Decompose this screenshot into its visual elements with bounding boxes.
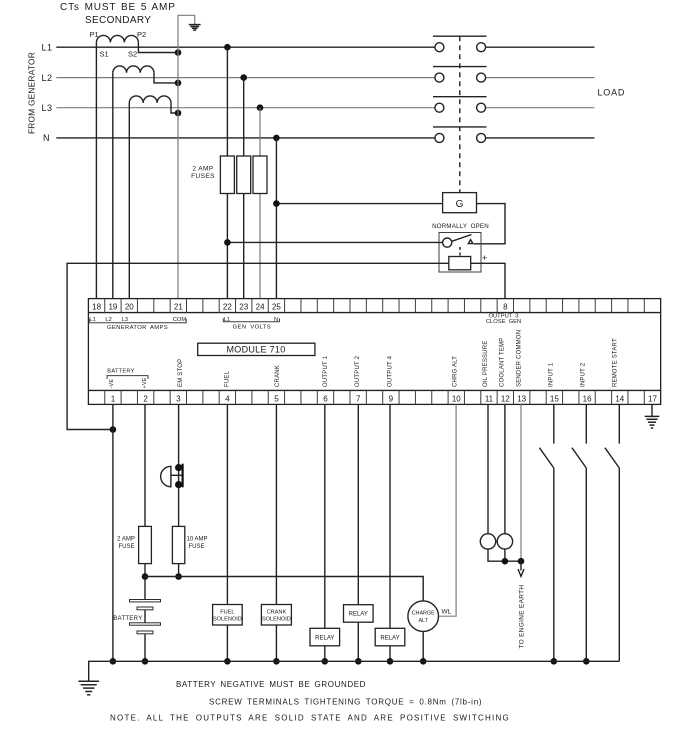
- wire L1 right segment: [486, 46, 595, 48]
- svg-text:CRANK: CRANK: [267, 610, 287, 616]
- svg-text:25: 25: [272, 303, 281, 312]
- svg-text:OUTPUT 1: OUTPUT 1: [323, 355, 329, 387]
- wire terminal 11 to oil pressure sender: [487, 404, 489, 533]
- switch input 1 upper stub: [553, 404, 555, 443]
- battery plates: [130, 600, 161, 602]
- relay switch arm: [452, 235, 472, 242]
- emergency stop contact top: [175, 464, 182, 471]
- svg-text:18: 18: [92, 303, 101, 312]
- fuse 2 AMP: [139, 526, 152, 563]
- svg-text:L1: L1: [89, 317, 95, 323]
- svg-text:16: 16: [583, 394, 592, 403]
- junction N vertical / G coil wire: [273, 200, 280, 207]
- emergency stop contact bottom: [175, 481, 182, 488]
- contactor actuator dashed link: [459, 36, 461, 192]
- emergency stop pushbutton head: [161, 466, 171, 487]
- svg-text:BATTERY NEGATIVE MUST BE GROUN: BATTERY NEGATIVE MUST BE GROUNDED: [176, 680, 366, 689]
- svg-text:L2: L2: [41, 73, 52, 83]
- svg-text:RELAY: RELAY: [349, 612, 368, 618]
- svg-text:COM: COM: [173, 317, 187, 323]
- svg-text:19: 19: [108, 303, 117, 312]
- svg-text:N: N: [43, 133, 50, 143]
- wire L3 right segment: [486, 107, 595, 109]
- relay moving contact triangle: [468, 240, 473, 244]
- wire terminal 2 down through fuse to battery: [144, 404, 146, 599]
- svg-text:G: G: [456, 199, 464, 210]
- svg-text:NOTE. ALL THE OUTPUTS ARE SOLI: NOTE. ALL THE OUTPUTS ARE SOLID STATE AN…: [110, 714, 510, 723]
- contactor pole L3 left contact: [435, 103, 444, 112]
- wire battery negative to bus: [144, 634, 146, 662]
- wire CT1 S2 lead: [138, 42, 178, 52]
- wire terminal 4 to fuel solenoid: [226, 404, 228, 604]
- wire N tap down to terminal 25: [275, 138, 277, 299]
- junction L1 vertical / relay contact wire: [224, 239, 231, 246]
- wire L2 tap down to terminal 23 (through fuse): [243, 78, 245, 299]
- svg-text:S1: S1: [100, 50, 109, 59]
- svg-text:2: 2: [143, 394, 148, 403]
- emergency stop contact bridge: [182, 464, 184, 488]
- wire L1 fuse tap to relay contact: [227, 241, 442, 243]
- svg-text:14: 14: [615, 394, 624, 403]
- svg-text:ALT: ALT: [418, 618, 428, 624]
- svg-text:L1: L1: [41, 42, 52, 52]
- svg-text:COOLANT TEMP: COOLANT TEMP: [499, 337, 505, 387]
- svg-text:1: 1: [111, 394, 116, 403]
- switch input 1 blade: [539, 448, 553, 468]
- svg-text:FROM GENERATOR: FROM GENERATOR: [27, 52, 37, 134]
- svg-text:15: 15: [550, 394, 559, 403]
- svg-text:SOLENOID: SOLENOID: [262, 617, 291, 623]
- wire N tap to G coil: [276, 203, 442, 205]
- junction battery feed / terminal 1 wire: [110, 426, 117, 433]
- svg-text:BATTERY: BATTERY: [113, 616, 142, 622]
- wire CT1 S1 lead down to terminal: [95, 42, 97, 298]
- junction tap on line N: [273, 135, 280, 142]
- svg-text:RELAY: RELAY: [315, 635, 334, 641]
- svg-text:FUSE: FUSE: [118, 544, 134, 550]
- svg-text:GENERATOR AMPS: GENERATOR AMPS: [107, 325, 168, 331]
- svg-text:SECONDARY: SECONDARY: [85, 15, 151, 26]
- svg-text:OIL PRESSURE: OIL PRESSURE: [483, 340, 489, 387]
- svg-text:11: 11: [485, 394, 494, 403]
- svg-text:EM STOP: EM STOP: [178, 359, 184, 387]
- svg-text:INPUT 1: INPUT 1: [548, 362, 554, 387]
- relay actuator dashed link: [459, 247, 461, 257]
- fuse 10 AMP: [172, 526, 184, 563]
- svg-text:CLOSE GEN: CLOSE GEN: [486, 319, 521, 325]
- svg-text:17: 17: [648, 394, 657, 403]
- svg-text:24: 24: [256, 303, 265, 312]
- svg-text:23: 23: [239, 303, 248, 312]
- wire L1 left segment: [56, 46, 435, 48]
- svg-text:FUEL: FUEL: [220, 610, 234, 616]
- junction tap on line L3: [257, 104, 264, 111]
- svg-text:10 AMP: 10 AMP: [186, 537, 207, 543]
- switch input 2 upper stub: [585, 404, 587, 443]
- ground bus: [89, 661, 620, 681]
- junction CT3 S2 to COM: [175, 110, 182, 117]
- contactor pole L1 right contact: [477, 43, 486, 52]
- contactor pole L3 right contact: [477, 103, 486, 112]
- wire COM common secondary to terminal 21: [178, 15, 195, 298]
- wire terminal 13 sender common: [520, 404, 522, 561]
- svg-text:22: 22: [223, 303, 232, 312]
- contactor pole L2 bar: [433, 66, 487, 68]
- ground (battery negative): [78, 680, 99, 682]
- svg-text:CRANK: CRANK: [275, 365, 281, 387]
- svg-text:2 AMP: 2 AMP: [192, 166, 213, 173]
- relay outline (normally open contact): [439, 233, 481, 273]
- contactor pole N left contact: [435, 133, 444, 142]
- module top terminal row: [88, 312, 660, 314]
- switch remote start lower wire: [618, 468, 620, 661]
- wire charge alt to bus: [422, 632, 424, 661]
- wire CT3 S2 lead: [171, 103, 178, 113]
- svg-text:+: +: [482, 253, 487, 263]
- wire N left segment: [56, 137, 435, 139]
- junction CT1 S2 to COM: [175, 49, 182, 56]
- ground (terminal 17): [645, 415, 660, 417]
- svg-text:FUEL: FUEL: [225, 370, 231, 387]
- engine earth arrow: [520, 561, 522, 570]
- wire CT2 S1 lead down to terminal: [112, 73, 114, 299]
- svg-text:L2: L2: [105, 317, 111, 323]
- svg-text:REMOTE START: REMOTE START: [612, 338, 618, 387]
- svg-text:SENDER COMMON: SENDER COMMON: [516, 330, 522, 387]
- wire L1 tap down to terminal 22 (through fuse): [226, 47, 228, 298]
- svg-text:SCREW TERMINALS TIGHTENING TOR: SCREW TERMINALS TIGHTENING TORQUE = 0.8N…: [209, 698, 482, 707]
- switch input 1 lower wire: [553, 468, 555, 661]
- wire L2 left segment: [56, 77, 435, 79]
- svg-text:10: 10: [452, 394, 461, 403]
- current transformer CT3 coil: [129, 96, 171, 103]
- wire crank solenoid to bus: [275, 625, 277, 661]
- current transformer CT2 coil: [113, 66, 154, 73]
- contactor pole L3 bar: [433, 96, 487, 98]
- contactor pole N bar: [433, 126, 487, 128]
- svg-text:L3: L3: [41, 103, 52, 113]
- fuse F3 (2 AMP): [253, 156, 267, 194]
- svg-text:L3: L3: [122, 317, 128, 323]
- svg-text:S2: S2: [128, 50, 137, 59]
- wire L3 left segment: [56, 107, 435, 109]
- wire CT2 S2 lead: [154, 73, 178, 83]
- ground (CT secondary earth): [189, 24, 201, 26]
- wire terminal 10 to alternator WL: [439, 404, 456, 616]
- svg-text:3: 3: [176, 394, 181, 403]
- contactor pole L1 left contact: [435, 43, 444, 52]
- svg-text:BATTERY: BATTERY: [107, 368, 134, 374]
- wire N right segment: [486, 137, 595, 139]
- current transformer CT1 coil: [96, 35, 138, 42]
- junction terminal 3 wire / alternator feed: [175, 573, 182, 580]
- svg-text:9: 9: [389, 394, 394, 403]
- svg-text:4: 4: [225, 394, 230, 403]
- svg-text:P2: P2: [137, 30, 146, 39]
- svg-text:CHARGE: CHARGE: [412, 611, 435, 617]
- contactor pole L2 left contact: [435, 73, 444, 82]
- contactor pole L1 bar: [433, 35, 487, 37]
- contactor pole L2 right contact: [477, 73, 486, 82]
- svg-text:RELAY: RELAY: [380, 635, 399, 641]
- wire terminal 3 down through fuse: [178, 404, 180, 576]
- svg-text:21: 21: [174, 303, 183, 312]
- module name box MODULE 710: [198, 343, 315, 355]
- switch remote start upper stub: [618, 404, 620, 443]
- relay coil box: [449, 257, 471, 270]
- wire senders common: [488, 549, 521, 561]
- svg-text:SOLENOID: SOLENOID: [213, 617, 242, 623]
- svg-text:6: 6: [323, 394, 328, 403]
- wire G coil to NO contact: [474, 204, 505, 244]
- svg-text:13: 13: [517, 394, 526, 403]
- junction battery / bus: [142, 658, 149, 665]
- wire relay coil to terminal 8: [471, 263, 505, 298]
- svg-text:INPUT 2: INPUT 2: [580, 362, 586, 387]
- junction terminal 2 wire / alternator feed: [142, 573, 149, 580]
- svg-text:5: 5: [274, 394, 279, 403]
- svg-text:GEN VOLTS: GEN VOLTS: [233, 325, 271, 331]
- svg-text:FUSE: FUSE: [188, 544, 204, 550]
- junction CT2 S2 to COM: [175, 80, 182, 87]
- switch input 2 blade: [572, 448, 586, 468]
- coolant temp sender: [497, 534, 512, 549]
- svg-text:TO ENGINE EARTH: TO ENGINE EARTH: [519, 585, 526, 649]
- svg-text:P1: P1: [90, 30, 99, 39]
- fuse F2 (2 AMP): [237, 156, 251, 194]
- wire battery positive to relay coil (long run): [67, 263, 449, 429]
- switch remote start blade: [605, 448, 619, 468]
- relay (output 1, terminal 6): [324, 404, 326, 628]
- oil pressure sender: [480, 534, 495, 549]
- svg-text:+VE: +VE: [142, 377, 148, 388]
- svg-text:MODULE 710: MODULE 710: [226, 345, 285, 355]
- wire CT3 S1 lead down to terminal: [128, 103, 130, 299]
- wire L2 right segment: [486, 77, 595, 79]
- svg-text:-VE: -VE: [109, 379, 115, 389]
- fuse F1 (2 AMP): [220, 156, 234, 194]
- svg-text:NORMALLY OPEN: NORMALLY OPEN: [432, 223, 489, 230]
- svg-text:OUTPUT 2: OUTPUT 2: [355, 355, 361, 387]
- svg-text:FUSES: FUSES: [191, 173, 215, 180]
- charge alternator circle: [408, 601, 439, 632]
- relay fixed contact circle: [443, 238, 452, 247]
- module 710 outer box: [88, 299, 660, 405]
- svg-text:CTs MUST BE 5 AMP: CTs MUST BE 5 AMP: [60, 2, 176, 13]
- wire terminal 12 to coolant temp sender: [504, 404, 506, 533]
- switch input 2 lower wire: [585, 468, 587, 661]
- junction tap on line L2: [240, 74, 247, 81]
- wire L3 tap down to terminal 24 (through fuse): [259, 108, 261, 299]
- wire battery/alternator feed: [145, 577, 423, 601]
- relay (output 4, terminal 9): [389, 404, 391, 628]
- svg-text:2 AMP: 2 AMP: [117, 537, 135, 543]
- crank solenoid box: [261, 605, 291, 626]
- junction terminal 1 / bus: [110, 658, 117, 665]
- wire terminal 17 to ground: [651, 404, 653, 416]
- wire terminal 5 to crank solenoid: [275, 404, 277, 604]
- svg-text:CHRG ALT: CHRG ALT: [453, 356, 459, 387]
- contactor pole N right contact: [477, 133, 486, 142]
- svg-text:12: 12: [501, 394, 510, 403]
- svg-text:20: 20: [125, 303, 134, 312]
- module bottom terminal row: [88, 389, 660, 391]
- fuel solenoid box: [213, 605, 243, 626]
- relay (output 2, terminal 7): [357, 404, 359, 604]
- svg-text:OUTPUT 4: OUTPUT 4: [388, 355, 394, 387]
- svg-text:8: 8: [503, 303, 508, 312]
- svg-text:LOAD: LOAD: [598, 88, 626, 98]
- wire terminal 1 to ground bus: [112, 404, 114, 661]
- svg-text:WL: WL: [442, 609, 452, 616]
- emergency stop stem: [171, 474, 183, 476]
- contactor coil G box: [443, 193, 477, 213]
- junction tap on line L1: [224, 44, 231, 51]
- wire fuel solenoid to bus: [226, 625, 228, 661]
- svg-text:7: 7: [356, 394, 361, 403]
